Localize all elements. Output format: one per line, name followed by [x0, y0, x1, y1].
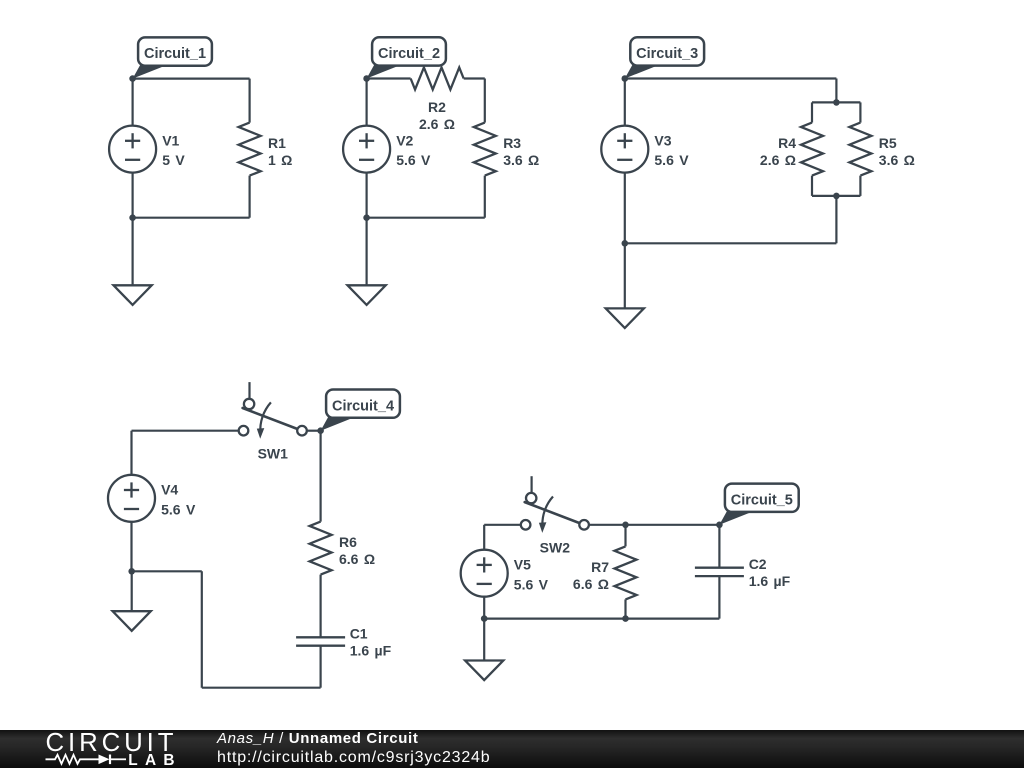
svg-text:5 V: 5 V [162, 152, 185, 168]
wire R4 bottom stub [811, 176, 813, 196]
wire R3 top stub [484, 79, 486, 123]
voltage source V3 [601, 126, 648, 173]
svg-text:V4: V4 [161, 482, 178, 498]
wire R7 bottom stub [624, 599, 626, 618]
footer title [217, 730, 418, 747]
node C1 top-left junction [129, 75, 136, 82]
voltage source V1 [109, 126, 156, 173]
svg-text:Circuit_2: Circuit_2 [378, 46, 440, 62]
wire C5 bottom [484, 617, 719, 619]
wire V1 bottom [132, 173, 134, 218]
svg-text:1.6 µF: 1.6 µF [350, 643, 392, 659]
svg-text:V1: V1 [162, 132, 179, 148]
wire SW1 to node [306, 430, 321, 432]
wire V1 top [132, 79, 134, 126]
svg-text:2.6 Ω: 2.6 Ω [419, 116, 455, 132]
node C3 bottom junction [622, 240, 629, 247]
svg-text:R2: R2 [428, 99, 446, 115]
wire C2 top right [464, 77, 485, 79]
svg-text:1.6 µF: 1.6 µF [749, 573, 791, 589]
ground G1 [114, 285, 152, 305]
wire to ground [624, 243, 626, 308]
wire to SW2 left [484, 524, 521, 526]
wire to ground [366, 218, 368, 286]
resistor R7 [615, 546, 637, 599]
node C2 top-left junction [363, 75, 370, 82]
wire V5 bottom [483, 597, 485, 619]
wire C1 top [133, 77, 250, 79]
wire C2 bottom [367, 217, 485, 219]
wire C2 top left [367, 77, 411, 79]
wire C4 bottom [202, 687, 321, 689]
node label callout Circuit_1 [133, 65, 168, 79]
footer bar [0, 730, 1024, 768]
svg-text:V2: V2 [396, 132, 413, 148]
wire C3 bottom [625, 242, 837, 244]
node C5 bottom junction [481, 615, 488, 622]
ground G4 [113, 611, 151, 631]
node C2 bottom junction [363, 214, 370, 221]
node C5 top right [716, 522, 723, 529]
wire to SW1 left [132, 430, 239, 432]
resistor R4 [801, 123, 823, 176]
wire to R6 [320, 431, 322, 522]
svg-text:5.6 V: 5.6 V [514, 576, 549, 592]
wire R4 top stub [811, 102, 813, 122]
capacitor C1 [296, 637, 345, 645]
wire C1 bottom [133, 217, 250, 219]
svg-text:R7: R7 [591, 559, 609, 575]
wire V2 bottom [366, 173, 368, 218]
voltage source V2 [343, 126, 390, 173]
svg-text:SW1: SW1 [258, 445, 289, 461]
node label callout Circuit_3 [625, 65, 660, 79]
ground G5 [465, 661, 503, 681]
wire down from pair [835, 196, 837, 243]
footer url [217, 749, 490, 767]
wire C4 left riser [201, 571, 203, 687]
wire bottom rail [812, 195, 860, 197]
wire V4 bottom [130, 522, 132, 572]
resistor R3 [474, 123, 496, 176]
switch SW1 [248, 382, 250, 399]
ground G2 [348, 285, 386, 305]
wire C3 top [625, 77, 837, 79]
svg-text:5.6 V: 5.6 V [654, 152, 689, 168]
svg-text:R3: R3 [503, 135, 521, 151]
svg-text:Circuit_3: Circuit_3 [636, 46, 698, 62]
wire R1 top stub [249, 79, 251, 123]
node R7 top [622, 522, 629, 529]
wire R3 bottom stub [484, 176, 486, 218]
wire top rail [812, 101, 860, 103]
node C3 top-left junction [622, 75, 629, 82]
wire V3 bottom [624, 173, 626, 244]
node C1 bottom junction [129, 214, 136, 221]
wire C2cap top stub [718, 525, 720, 568]
resistor R2 [411, 68, 464, 90]
svg-text:3.6 Ω: 3.6 Ω [503, 152, 539, 168]
node label callout Circuit_2 [367, 65, 402, 79]
node label callout Circuit_5 [719, 511, 754, 525]
node R4R5 bottom junction [833, 193, 840, 200]
svg-text:R1: R1 [268, 135, 286, 151]
svg-text:3.6 Ω: 3.6 Ω [879, 152, 915, 168]
node R4R5 top junction [833, 99, 840, 106]
voltage source V5 [461, 550, 508, 597]
wire V4 top riser [130, 431, 132, 475]
wire to V4 bottom node [132, 570, 202, 572]
svg-text:6.6 Ω: 6.6 Ω [339, 551, 375, 567]
wire C1cap down [320, 646, 322, 688]
svg-text:5.6 V: 5.6 V [396, 152, 431, 168]
svg-text:C2: C2 [749, 556, 767, 572]
resistor R5 [849, 123, 871, 176]
resistor R6 [310, 522, 332, 575]
svg-text:2.6 Ω: 2.6 Ω [760, 152, 796, 168]
switch SW2 [530, 476, 532, 493]
svg-text:V3: V3 [654, 132, 671, 148]
svg-text:5.6 V: 5.6 V [161, 501, 196, 517]
resistor R1 [239, 123, 261, 176]
wire to ground [131, 571, 133, 611]
voltage source V4 [108, 475, 155, 522]
node label callout Circuit_4 [321, 417, 356, 431]
capacitor C2 [695, 568, 744, 576]
wire down to parallel pair [835, 79, 837, 103]
wire C2cap bottom stub [718, 576, 720, 618]
svg-text:V5: V5 [514, 557, 531, 573]
wire R6 to C1cap [320, 575, 322, 638]
wire to ground [132, 218, 134, 286]
wire V3 top [624, 79, 626, 126]
wire R7 to C2cap [626, 524, 720, 526]
wire to ground [483, 619, 485, 661]
svg-text:C1: C1 [350, 626, 368, 642]
wire V5 top riser [483, 525, 485, 550]
wire R5 bottom stub [859, 176, 861, 196]
svg-text:LAB: LAB [128, 752, 182, 768]
wire R7 top stub [624, 525, 626, 547]
svg-text:Circuit_4: Circuit_4 [332, 398, 394, 414]
wire SW2 to R7 [589, 524, 626, 526]
wire R1 bottom stub [249, 176, 251, 218]
node C4 top [317, 427, 324, 434]
wire V2 top [366, 79, 368, 126]
wire R5 top stub [859, 102, 861, 122]
ground G3 [606, 308, 644, 328]
svg-text:Circuit_1: Circuit_1 [144, 46, 206, 62]
svg-text:R6: R6 [339, 534, 357, 550]
node C4 bottom junction [128, 568, 135, 575]
svg-text:SW2: SW2 [540, 540, 571, 556]
svg-text:Circuit_5: Circuit_5 [731, 492, 793, 508]
node R7 bottom junction [622, 615, 629, 622]
svg-text:6.6 Ω: 6.6 Ω [573, 576, 609, 592]
svg-text:R4: R4 [778, 135, 796, 151]
CircuitLab logo [30, 728, 220, 768]
svg-text:R5: R5 [879, 135, 897, 151]
svg-text:1 Ω: 1 Ω [268, 152, 292, 168]
